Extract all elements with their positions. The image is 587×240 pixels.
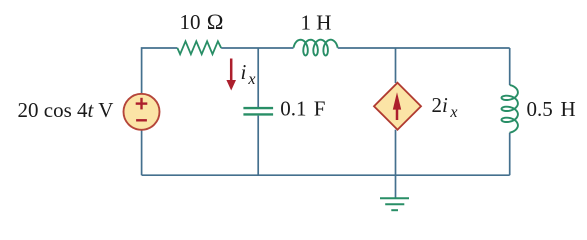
ground xyxy=(380,198,409,210)
wire: capacitor branch top xyxy=(257,48,259,107)
wire: ground stem xyxy=(395,175,397,198)
inductor L2 0.5 H xyxy=(502,85,518,133)
dependent source I1 arrow xyxy=(393,92,401,120)
wire: bottom xyxy=(142,174,510,176)
wire: right vertical top xyxy=(509,48,511,85)
wire: left vertical below source xyxy=(141,130,143,175)
voltage source V1 plus terminal xyxy=(136,98,148,110)
wire: dependent source branch bottom xyxy=(395,130,397,175)
wire: top middle segment xyxy=(221,47,293,49)
current arrow ix xyxy=(226,59,236,91)
inductor L1 1 H xyxy=(294,40,338,56)
svg-text:1 H: 1 H xyxy=(301,11,332,35)
dependent current source I1 2ix diamond xyxy=(374,83,421,130)
wire: top right segment xyxy=(338,47,510,49)
capacitor C1 0.1 F plate top xyxy=(243,107,273,109)
svg-text:20 cos 4t V: 20 cos 4t V xyxy=(18,98,114,122)
voltage source V1 minus terminal xyxy=(136,119,147,121)
svg-text:2ix: 2ix xyxy=(432,93,458,121)
wire: left vertical above source xyxy=(142,48,178,94)
resistor R1 10 ohm xyxy=(177,41,221,54)
svg-text:0.5 H: 0.5 H xyxy=(527,97,576,121)
wire: capacitor branch bottom xyxy=(257,116,259,176)
svg-text:10 Ω: 10 Ω xyxy=(180,9,224,34)
voltage source V1 20cos4t circle xyxy=(124,94,160,130)
capacitor C1 0.1 F plate bottom xyxy=(243,113,273,115)
wire: dependent source branch top xyxy=(395,48,397,83)
wire: right vertical bottom xyxy=(509,133,511,175)
svg-text:ix: ix xyxy=(241,60,256,88)
svg-text:0.1 F: 0.1 F xyxy=(280,97,325,121)
